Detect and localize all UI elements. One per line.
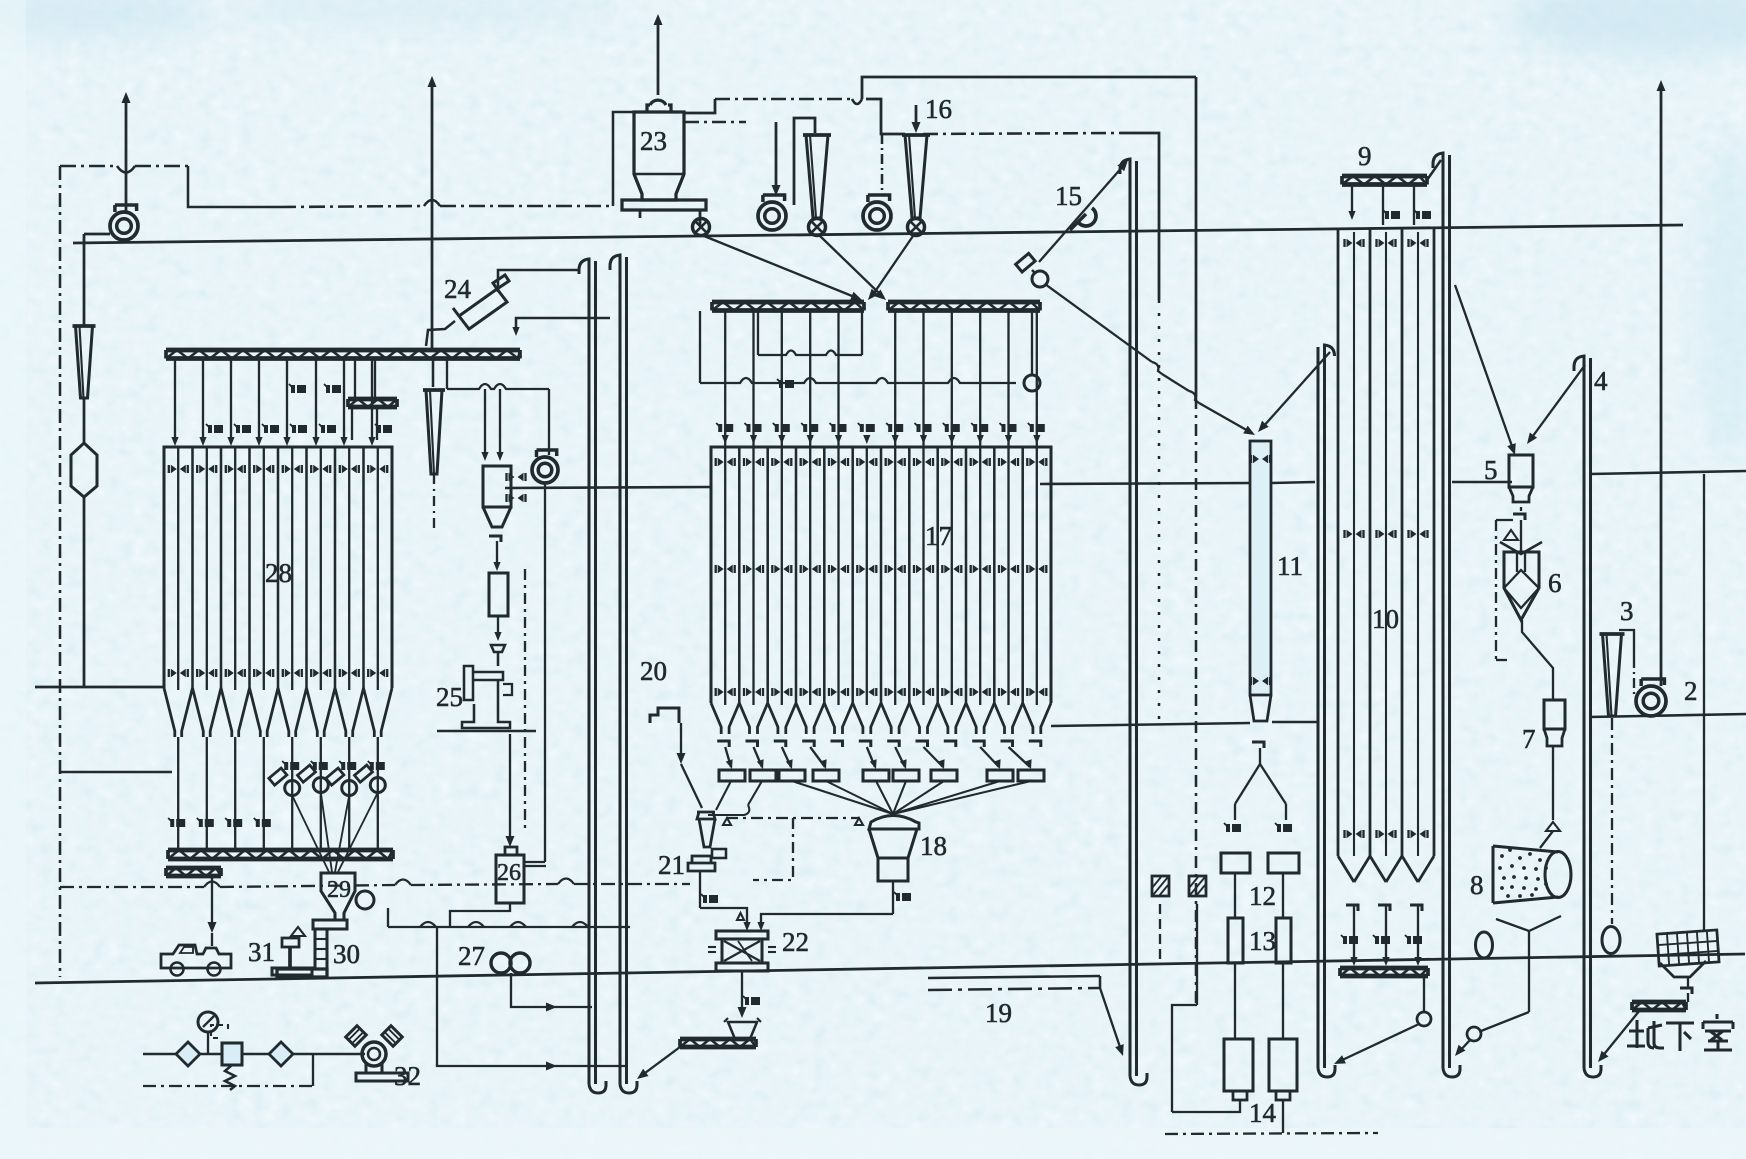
- sack oval left: [1476, 932, 1493, 958]
- bin 23 body: [634, 112, 684, 200]
- chute 24 (slanted duct): [453, 275, 509, 329]
- bin 23 dome: [647, 100, 671, 112]
- svg-text:17: 17: [925, 521, 952, 551]
- bank 28 hoppers: [164, 688, 175, 737]
- svg-text:3: 3: [1620, 596, 1634, 626]
- bank 28 outer walls: [164, 447, 392, 688]
- loading spout 30 column: [313, 920, 347, 929]
- elevator E1: [579, 259, 589, 1084]
- gate under 5: [1513, 514, 1525, 520]
- elevator E4: [1325, 345, 1335, 1068]
- bank 17 feed tubes and valves: [724, 311, 726, 448]
- feed funnel under mill 22: [728, 1022, 757, 1039]
- bank 17 hoppers: [711, 703, 721, 734]
- svg-text:32: 32: [394, 1061, 421, 1091]
- weigh hopper 18 top: [869, 816, 919, 830]
- fan A (middle): [758, 202, 786, 230]
- roller mill 22: [716, 931, 768, 939]
- top-left dash-dot duct to fan 1: [60, 165, 117, 168]
- svg-text:30: 30: [333, 939, 360, 969]
- svg-text:20: 20: [640, 656, 667, 686]
- duct jog down toward bin 23: [188, 166, 280, 207]
- svg-text:2: 2: [1684, 676, 1698, 706]
- elevator E3 (tall, centre-right): [1120, 159, 1130, 1076]
- svg-text:16: 16: [925, 94, 952, 124]
- conveyor 20 symbol: [650, 708, 679, 723]
- dash-dot drop at 1159: [1158, 300, 1161, 722]
- cyclone 16: [902, 133, 930, 137]
- bank 10 hoppers: [1338, 856, 1354, 882]
- boxes 13: [1228, 918, 1243, 963]
- airlock flap 21: [712, 849, 726, 858]
- mill 22 discharge to sifter feed: [741, 971, 743, 1012]
- bank 28 dividers: [191, 447, 194, 688]
- ground line (bottom, spans page): [35, 954, 1745, 983]
- wavy line to elevator E2: [388, 926, 630, 928]
- magnet boxes 12: [1221, 853, 1250, 873]
- riser 24 through deck to small cyclone: [432, 358, 435, 387]
- aux hatched bar and glyphs: [291, 385, 306, 393]
- ball valves with samplers on right four drops: [285, 781, 300, 796]
- dash-dot air return line: [143, 1085, 313, 1087]
- exhaust arrow above fan 1: [125, 100, 128, 212]
- deck drop tubes to bank 28: [174, 359, 176, 441]
- discharge 25 down to 26: [509, 734, 511, 841]
- spout cyclone 16 to sifter bar (crossing): [872, 236, 913, 296]
- fluted hexagon separator: [71, 443, 97, 497]
- bank 17 under-hopper spouts to slide boxes: [725, 747, 731, 767]
- cyclone under fan 1: [73, 324, 96, 328]
- long spout from sampler to bin 11: [1045, 284, 1152, 362]
- spout E6 head down-left: [1530, 365, 1585, 440]
- feed arrow into cyclone 16: [915, 105, 918, 128]
- air compressor 32: [362, 1042, 386, 1066]
- svg-text:14: 14: [1249, 1098, 1277, 1128]
- svg-text:25: 25: [436, 682, 463, 712]
- svg-text:7: 7: [1522, 724, 1536, 754]
- svg-text:26: 26: [497, 860, 521, 886]
- upper manifold to right corner: [862, 77, 1196, 99]
- machine 25 (packer): [491, 645, 505, 666]
- sack oval right: [1602, 927, 1620, 954]
- dash-dot loop left of 6: [1496, 519, 1513, 521]
- spout bagging to elevator E6: [1601, 1010, 1640, 1058]
- bank 10 conveyor discharge circle A: [1423, 976, 1425, 1012]
- fan 1: [110, 212, 138, 240]
- spout cyclone A to sifter bar: [820, 236, 882, 296]
- bank 28 centre tubes with valves: [177, 447, 179, 690]
- small cyclone under deck: [423, 388, 445, 392]
- wiggle manifold above filter vessel: [446, 358, 448, 389]
- flow diverter 15 scoop: [1078, 208, 1096, 226]
- compressed air line with filters, regulator 32: [143, 1053, 365, 1056]
- svg-text:13: 13: [1249, 926, 1276, 956]
- discharge circle B: [1467, 1027, 1481, 1041]
- discharge 18 to mill 22: [892, 880, 894, 914]
- screw conveyor bar under 22: [680, 1037, 756, 1042]
- loadout drop to truck: [211, 877, 213, 927]
- right corner riser down: [1195, 77, 1198, 397]
- second feed line to elevator E1: [437, 928, 626, 1066]
- gates under bank 17 hoppers: [717, 741, 729, 747]
- main floor duct line (spans page): [73, 225, 1683, 243]
- spout to circle B: [1481, 1012, 1529, 1031]
- svg-text:10: 10: [1372, 604, 1399, 634]
- deck drop glyphs: [208, 425, 223, 433]
- dash-dot duct 23 lower branch: [685, 121, 746, 124]
- glyph near wiggle lines: [779, 380, 794, 388]
- left margin dash-dot riser: [59, 166, 62, 977]
- V-collector under 8: [1496, 916, 1561, 931]
- spout 6 to 7: [1522, 620, 1553, 700]
- 26 bottom discharge loop: [450, 903, 510, 926]
- roll feeder 27: [491, 953, 511, 973]
- spouts from slide boxes to hopper 18: [792, 781, 893, 814]
- fan 2: [1636, 686, 1666, 716]
- svg-text:15: 15: [1055, 181, 1082, 211]
- vent triangles near 22: [737, 913, 744, 920]
- bank 17 manifold wiggle line A: [757, 311, 759, 355]
- tall cyclone 3: [1600, 632, 1625, 636]
- sampler on spout: [1016, 253, 1035, 272]
- vent triangle above 6: [1504, 530, 1518, 540]
- platform scale 31: [282, 938, 299, 947]
- truck-loading conveyor (hatched): [168, 848, 393, 853]
- rigid duct box: [489, 573, 508, 616]
- surge bin 26: [505, 847, 517, 855]
- basement text di-xia-shi drawn as strokes: [1627, 1014, 1733, 1051]
- floor line mid-right segments: [1040, 483, 1249, 484]
- verticals near squares: [1159, 904, 1161, 960]
- svg-text:29: 29: [327, 877, 351, 903]
- left feed line to bank 28 drops: [60, 771, 172, 774]
- bottom dash-dot run: [1165, 1133, 1378, 1134]
- elevator E5: [1433, 153, 1443, 1068]
- spout 15 diagonal up to E3 head: [1039, 165, 1124, 262]
- sampler circle: [1032, 271, 1048, 287]
- fan B: [863, 202, 891, 230]
- pi-duct over fan A / cyclone A: [794, 118, 815, 205]
- airlock cyclone 16: [908, 219, 925, 236]
- svg-text:21: 21: [658, 850, 685, 880]
- sifter 17 right hatched deck: [888, 300, 1040, 305]
- spout into 5: [1455, 285, 1513, 449]
- drop with arrow to fan A inlet: [775, 122, 778, 190]
- dash-dot duct toward bin 23: [280, 206, 424, 207]
- drop line from 20: [680, 723, 682, 758]
- spout conveyor to elevator E2 boot: [641, 1047, 680, 1076]
- sifter 17 left hatched deck: [712, 300, 864, 305]
- tall bin 11: [1250, 441, 1271, 695]
- conveyor 19 double line: [928, 976, 1100, 978]
- bin 29 side wheel: [356, 891, 374, 909]
- sieve 9 hatched deck: [1342, 174, 1427, 179]
- silo bank 10 walls: [1337, 228, 1340, 856]
- exhaust riser 24 with arrow: [431, 84, 434, 350]
- drop to machine 25: [497, 616, 499, 636]
- link cyclone to hex fluted body: [83, 398, 86, 443]
- bank 17 cell dividers: [738, 447, 741, 703]
- boxes 14: [1224, 1039, 1253, 1091]
- fan C: [532, 457, 558, 483]
- discharge 7 with vent: [1552, 746, 1554, 820]
- cyclone 5: [1509, 455, 1533, 487]
- svg-text:19: 19: [985, 998, 1012, 1028]
- svg-text:24: 24: [444, 274, 472, 304]
- elevator E2: [610, 255, 620, 1084]
- short conveyor under left end: [166, 866, 221, 871]
- svg-text:11: 11: [1277, 551, 1303, 581]
- airlock under bin 23: [693, 219, 710, 236]
- second manifold branch: [866, 99, 905, 134]
- wavy level line through 26 region: [60, 886, 204, 888]
- dash-dot pneumatic loop near 18: [726, 817, 859, 819]
- svg-text:5: 5: [1484, 455, 1498, 485]
- bank 28 discharge drops: [177, 737, 179, 850]
- vent triangle near 30: [291, 927, 305, 936]
- cyclone A: [803, 133, 831, 137]
- fan 1 suction drop: [83, 234, 86, 326]
- dash link to fan B: [881, 134, 884, 196]
- weigh hopper 18 body: [869, 829, 917, 881]
- duct 3 to fan 2: [1619, 630, 1634, 658]
- svg-text:8: 8: [1470, 870, 1484, 900]
- fan C discharge duct down to 26: [544, 483, 546, 862]
- stand 21: [688, 856, 715, 871]
- cyclone 21 body: [697, 812, 715, 847]
- truck: [161, 945, 231, 968]
- svg-text:22: 22: [782, 927, 809, 957]
- collecting conveyor under bank 10: [1340, 966, 1428, 971]
- lines out of 14: [1172, 1100, 1240, 1112]
- left low floor line: [35, 686, 164, 689]
- conical screen 8: [1493, 846, 1558, 903]
- svg-text:12: 12: [1249, 881, 1276, 911]
- E1 head spout to chute 24: [498, 270, 579, 292]
- dash-dot bypass at 525: [524, 569, 526, 831]
- hatched wall-pass squares: [1152, 876, 1169, 896]
- spout from left boxes down to mixer 21: [716, 781, 731, 810]
- bank 10 gates and discharge: [1346, 905, 1358, 911]
- E2 head spout line: [516, 318, 610, 330]
- sieve 9 drop tubes: [1351, 185, 1353, 212]
- pressure vessel (filter) body: [483, 466, 511, 507]
- spout E4 head to bin 11: [1262, 352, 1330, 428]
- feed line from 27 to elevator E1: [511, 973, 592, 1007]
- airlock cyclone A: [809, 219, 826, 236]
- svg-text:18: 18: [920, 831, 947, 861]
- svg-text:27: 27: [458, 941, 485, 971]
- exhaust arrow far right: [1660, 88, 1663, 686]
- exhaust arrow above bin 23: [657, 22, 660, 95]
- short floor under 25: [437, 730, 536, 733]
- sieve 9 support diagonal to elevator E5: [1427, 160, 1441, 180]
- bank 10 tubes and valves: [1353, 232, 1355, 856]
- elevator E6: [1574, 356, 1584, 1068]
- discharge 21 to mill 22: [699, 871, 701, 908]
- bank 17 manifold wiggle line B: [699, 311, 701, 383]
- line 26 right riser: [524, 865, 546, 867]
- svg-text:4: 4: [1594, 366, 1608, 396]
- svg-text:31: 31: [248, 937, 275, 967]
- bagging feed from floor: [1703, 474, 1705, 930]
- svg-text:9: 9: [1358, 141, 1372, 171]
- cyclone 7: [1544, 700, 1565, 729]
- aspiration channel bar (main sieve deck): [166, 348, 520, 353]
- drop from hexagon to floor line: [83, 497, 86, 686]
- dash-dot drop to sack: [1611, 718, 1613, 924]
- floor line mid level: [505, 487, 711, 488]
- bin 11 gate: [1252, 742, 1264, 748]
- spout 23-airlock to sifter bar: [704, 236, 857, 298]
- bin 23 base plate: [622, 200, 706, 210]
- svg-text:28: 28: [265, 558, 292, 588]
- duct bin23 to upper manifold: [684, 99, 715, 113]
- svg-text:6: 6: [1548, 568, 1562, 598]
- purifier 6: [1520, 520, 1522, 552]
- under-hopper floor right: [1051, 723, 1250, 726]
- pressure gauge: [198, 1012, 218, 1032]
- splitter under bin 11: [1235, 748, 1260, 804]
- svg-text:23: 23: [640, 126, 667, 156]
- bagging grid hopper: [1657, 930, 1719, 966]
- glyphs on left four drops: [170, 819, 185, 827]
- gate under vessel: [489, 536, 501, 542]
- bagging conveyor bar: [1632, 1000, 1686, 1005]
- loadout bin 29: [321, 873, 355, 920]
- bank 17 outer walls: [711, 447, 1051, 703]
- drops into pressure vessel: [484, 389, 486, 455]
- feed duct into bin 23 from left: [613, 112, 634, 206]
